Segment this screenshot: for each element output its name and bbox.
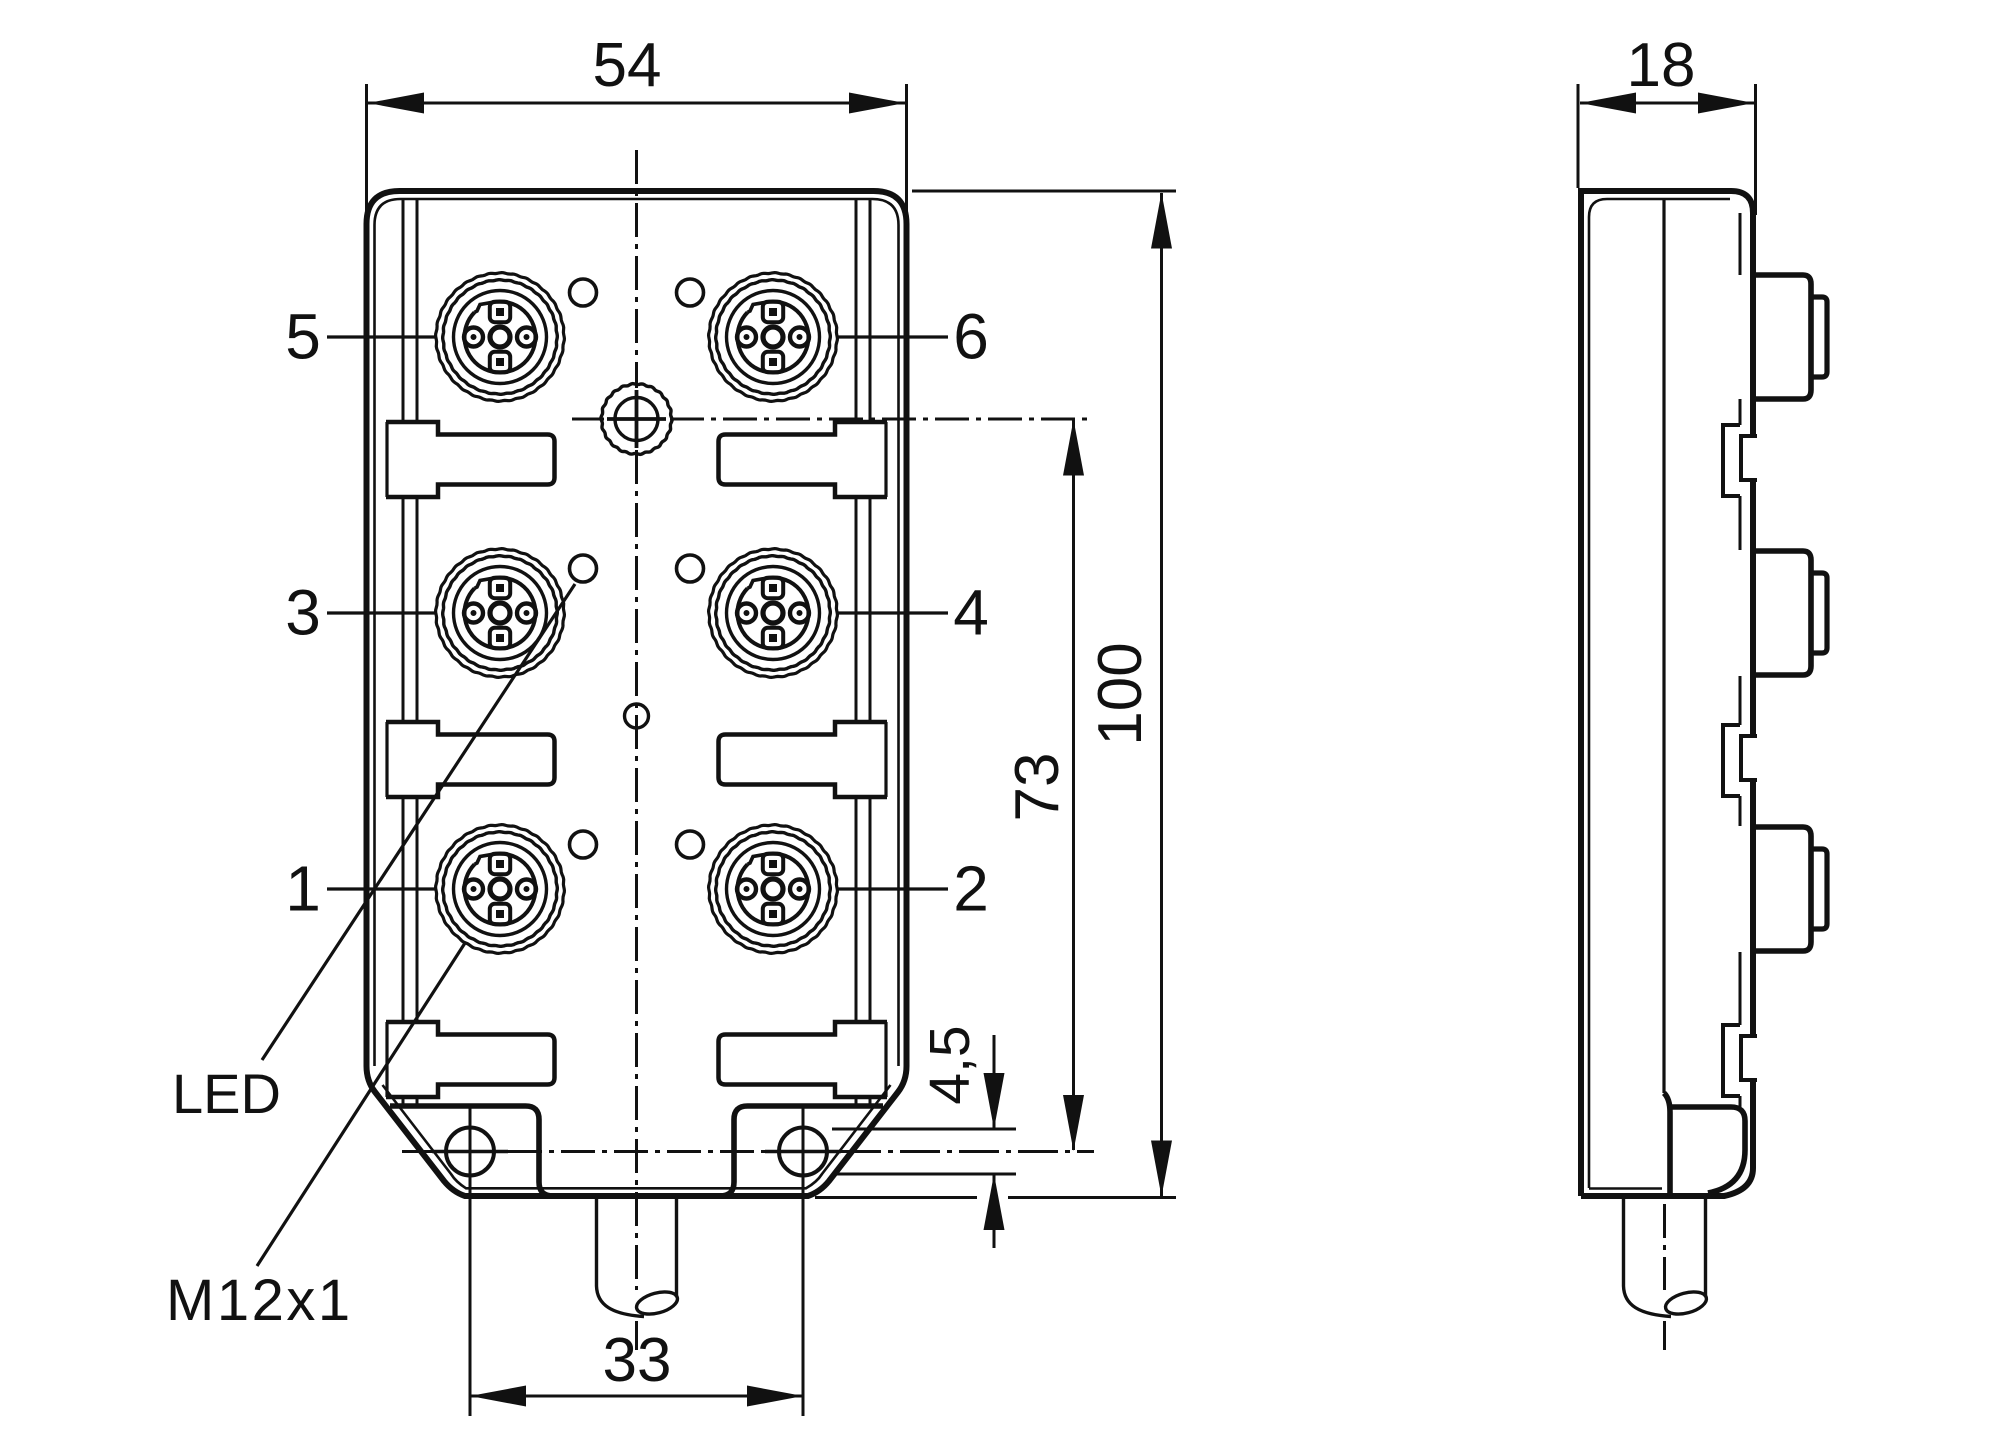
svg-text:4,5: 4,5	[918, 1025, 982, 1104]
svg-text:18: 18	[1627, 31, 1696, 100]
svg-text:100: 100	[1086, 642, 1155, 745]
svg-text:1: 1	[285, 853, 321, 925]
svg-text:LED: LED	[172, 1062, 281, 1125]
svg-text:2: 2	[953, 853, 989, 925]
svg-text:4: 4	[953, 577, 989, 649]
svg-text:3: 3	[285, 577, 321, 649]
svg-text:54: 54	[593, 31, 662, 100]
svg-text:6: 6	[953, 301, 989, 373]
svg-text:5: 5	[285, 301, 321, 373]
svg-text:33: 33	[603, 1326, 672, 1395]
svg-text:73: 73	[1003, 753, 1072, 822]
svg-text:M12x1: M12x1	[166, 1268, 353, 1333]
